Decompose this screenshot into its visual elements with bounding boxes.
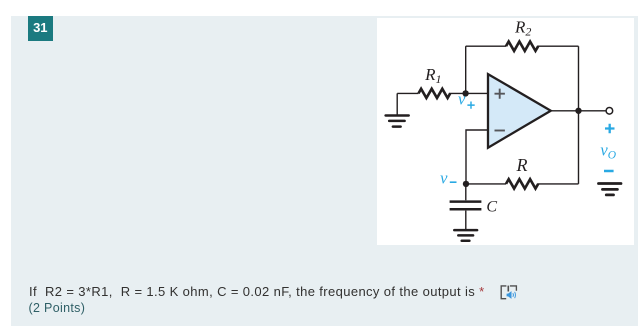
svg-text:v: v (440, 168, 448, 187)
svg-text:v: v (458, 89, 466, 108)
svg-text:C: C (486, 198, 497, 215)
svg-text:vO: vO (600, 140, 616, 161)
svg-text:R: R (515, 155, 527, 175)
svg-text:R1: R1 (424, 64, 441, 85)
svg-text:R2: R2 (514, 18, 531, 38)
